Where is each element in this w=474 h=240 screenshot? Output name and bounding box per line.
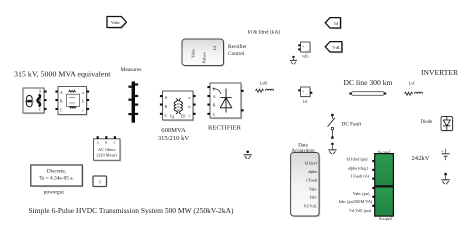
svg-text:C: C	[39, 108, 42, 112]
annotation: vdL block name	[302, 54, 309, 59]
svg-text:c: c	[189, 113, 191, 118]
svg-text:Rectifier: Rectifier	[228, 43, 247, 50]
svg-text:B: B	[213, 103, 216, 108]
svg-text:Vd VdL: Vd VdL	[304, 203, 318, 208]
svg-text:Simple 6-Pulse HVDC Transmissi: Simple 6-Pulse HVDC Transmission System …	[29, 207, 235, 215]
svg-text:VdL: VdL	[332, 45, 341, 50]
DC line 300km distributed parameter block	[349, 92, 386, 96]
series inductor LsR	[256, 89, 274, 92]
svg-text:Pulses: Pulses	[201, 52, 206, 64]
svg-text:A: A	[39, 90, 42, 94]
annotation: 242kV	[412, 155, 430, 162]
three-phase source impedance block	[55, 87, 89, 116]
svg-text:600MVA: 600MVA	[161, 127, 186, 134]
annotation: Rectifier Control	[228, 43, 247, 57]
svg-text:Vd VdL (pu): Vd VdL (pu)	[349, 208, 372, 213]
transformer 600MVA block	[160, 91, 196, 121]
svg-text:b: b	[82, 100, 84, 104]
Data Acquisition block	[291, 153, 321, 218]
annotation: signal label alpha (deg.)	[348, 165, 369, 170]
svg-text:Control: Control	[228, 51, 245, 57]
svg-text:A: A	[60, 91, 63, 95]
svg-text:C: C	[213, 112, 216, 117]
Discrete powergui block	[31, 165, 84, 195]
annotation: DC line 300 km	[344, 78, 393, 87]
svg-text:RECTIFIER: RECTIFIER	[208, 125, 242, 132]
annotation: INVERTER	[421, 69, 458, 77]
AC filters block (320 Mvar)	[94, 136, 122, 161]
Diode block	[441, 117, 454, 132]
svg-text:A: A	[213, 94, 216, 99]
annotation: Scope1 label	[378, 150, 391, 155]
vdL voltage measurement block	[298, 42, 311, 53]
svg-text:Scope2: Scope2	[379, 216, 392, 221]
svg-text:LsR: LsR	[260, 81, 269, 86]
annotation: title Simple 6-Pulse HVDC Transmission System 500 MW (250kV-2kA)	[29, 207, 235, 215]
Scope1 block	[372, 154, 393, 186]
svg-text:I Fault: I Fault	[306, 178, 318, 183]
svg-text:Id & Idref (kA): Id & Idref (kA)	[248, 29, 281, 36]
annotation: Id block name	[303, 99, 307, 104]
svg-text:DC Fault: DC Fault	[342, 122, 362, 128]
svg-text:Ts = 4.34e-05 s.: Ts = 4.34e-05 s.	[39, 176, 74, 182]
series inductor LsI	[405, 92, 423, 95]
svg-text:Vabc (pu): Vabc (pu)	[353, 191, 370, 196]
annotation: signal label Vd VdL (pu)	[349, 208, 372, 213]
annotation: Data Acquisition label	[291, 144, 315, 154]
svg-text:B: B	[39, 98, 42, 102]
Id goto tag	[325, 18, 341, 30]
svg-text:a: a	[189, 95, 191, 100]
svg-text:C: C	[165, 113, 168, 118]
ground below rectifier	[244, 151, 252, 160]
svg-text:Vabc: Vabc	[191, 49, 196, 58]
annotation: signal label Vabc (pu)	[353, 191, 370, 196]
annotation: Diode label	[421, 120, 433, 125]
svg-text:alpha (deg.): alpha (deg.)	[348, 165, 369, 170]
DC voltage source 242kV	[441, 149, 450, 161]
Rectifier Control block	[182, 39, 225, 67]
annotation: signal label Iabc (pu/500M VA)	[339, 199, 373, 204]
annotation: LsI label	[409, 81, 416, 86]
svg-text:DC line 300 km: DC line 300 km	[344, 78, 393, 87]
Id current measurement block	[298, 87, 312, 98]
svg-text:(320 Mvar): (320 Mvar)	[97, 152, 118, 157]
svg-text:AC filters: AC filters	[98, 147, 116, 152]
ground inverter side	[441, 173, 450, 184]
model info ? block	[93, 176, 107, 187]
VdL goto tag	[325, 42, 343, 54]
svg-text:Iabc: Iabc	[310, 195, 317, 200]
svg-text:Id Idref (pu): Id Idref (pu)	[346, 157, 368, 162]
Vabc goto tag	[107, 17, 128, 29]
svg-text:Iabc (pu/500M VA): Iabc (pu/500M VA)	[339, 199, 373, 204]
svg-text:Discrete,: Discrete,	[47, 169, 67, 175]
annotation: Id &amp; Idref (kA)	[248, 29, 281, 36]
svg-text:315 kV, 5000 MVA equivalent: 315 kV, 5000 MVA equivalent	[14, 70, 112, 79]
annotation: signal label I Fault (A)	[351, 174, 370, 179]
svg-text:INVERTER: INVERTER	[421, 69, 458, 77]
svg-text:B: B	[165, 104, 168, 109]
annotation: Measures label	[121, 68, 142, 73]
svg-text:Vabc: Vabc	[111, 20, 120, 25]
svg-text:Vabc: Vabc	[309, 186, 317, 191]
svg-text:vdL: vdL	[302, 54, 309, 59]
svg-text:Measures: Measures	[121, 68, 142, 73]
svg-text:I Fault (A): I Fault (A)	[351, 174, 370, 179]
annotation: Scope2 label	[379, 216, 392, 221]
ground below vdL measurement	[290, 56, 297, 64]
svg-text:powergui: powergui	[44, 189, 65, 195]
svg-text:315/210 kV: 315/210 kV	[158, 135, 190, 142]
annotation: LsR label	[260, 81, 269, 86]
svg-text:A: A	[165, 95, 168, 100]
svg-text:b: b	[189, 104, 191, 109]
annotation: signal label Id Idref (pu)	[346, 157, 368, 162]
svg-text:alpha: alpha	[308, 169, 317, 174]
ground below DC Fault	[328, 143, 336, 155]
annotation: DC Fault label	[342, 122, 362, 128]
annotation: RECTIFIER	[208, 125, 242, 132]
Scope2 block	[372, 187, 393, 216]
svg-text:242kV: 242kV	[412, 155, 430, 162]
svg-text:Data: Data	[298, 144, 308, 149]
svg-text:Diode: Diode	[421, 120, 433, 125]
svg-text:LsI: LsI	[409, 81, 416, 86]
svg-text:g: g	[213, 85, 215, 90]
Measures bus block	[128, 82, 138, 123]
svg-text:+: +	[302, 44, 304, 48]
RECTIFIER thyristor bridge block	[207, 83, 243, 119]
source block 315kV three-phase source	[23, 88, 47, 114]
svg-text:Yg: Yg	[170, 114, 175, 119]
annotation: 315 kV, 5000 MVA equivalent	[14, 70, 112, 79]
DC Fault breaker switch	[328, 114, 335, 139]
svg-text:Id Idref: Id Idref	[305, 160, 318, 165]
svg-text:+: +	[302, 89, 304, 93]
annotation: 600MVA 315/210 kV	[158, 127, 190, 142]
svg-text:D1: D1	[181, 114, 186, 119]
